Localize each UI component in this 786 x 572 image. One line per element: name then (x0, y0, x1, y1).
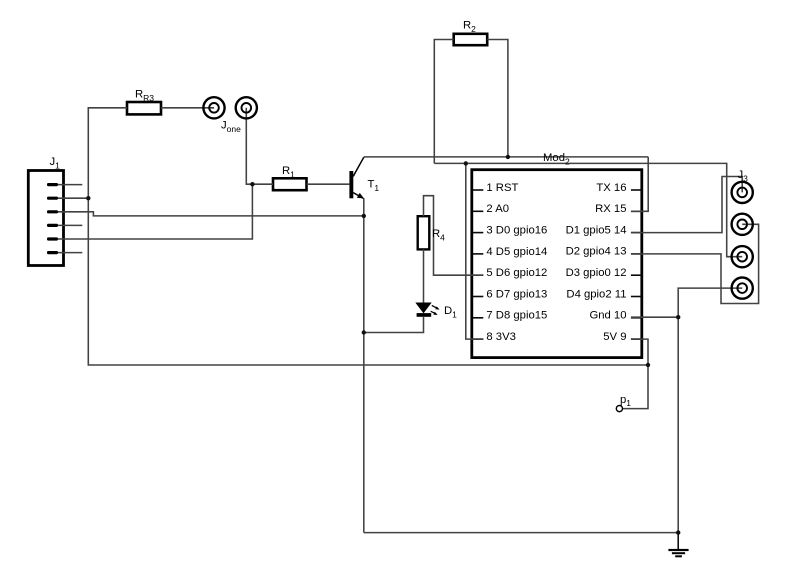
wire T1 collector rail to RX drop (364, 156, 648, 158)
connector J1 body (28, 171, 63, 266)
junction J1 pin2 / left rail (86, 196, 90, 200)
Mod2 pin 11 stub (631, 296, 642, 298)
Mod2 pin 8 3V3 stub (473, 338, 483, 340)
Mod2 pin 1 RST stub (473, 189, 483, 191)
label T1 (368, 179, 380, 194)
J1 pin 3 bar (47, 210, 58, 213)
wire 5V net to J3 jack3 (434, 163, 742, 256)
label Jone (221, 119, 241, 134)
svg-text:D4 gpio2 11: D4 gpio2 11 (566, 288, 626, 300)
IC module Mod2 body (472, 170, 642, 358)
Mod2 pin 15 RX stub (631, 210, 642, 212)
Mod2 pin 3 label (486, 225, 547, 237)
connector J3 jack1 (732, 182, 753, 203)
wire J1 pin3 to T1 emitter node (58, 212, 364, 216)
Mod2 pin 15 label (595, 203, 626, 215)
Mod2 pin 5 D6 stub (473, 274, 483, 276)
svg-text:D1 gpio5 14: D1 gpio5 14 (566, 224, 627, 236)
resistor R1 body (273, 178, 307, 190)
resistor R4 body (418, 216, 430, 249)
Mod2 pin 11 label (566, 288, 626, 300)
Mod2 pin 4 label (486, 246, 547, 258)
Mod2 pin 5 label (486, 267, 547, 279)
J1 pin 1 bar (47, 183, 58, 186)
Mod2 pin 10 label (589, 310, 626, 322)
svg-text:TX 16: TX 16 (596, 182, 626, 194)
wire R4 bottom to D1 anode (423, 249, 425, 302)
svg-text:7 D8 gpio15: 7 D8 gpio15 (486, 310, 547, 322)
wire R2 left down to 5V net (434, 40, 453, 164)
J1 pin 6 bar (47, 251, 58, 254)
svg-text:5V 9: 5V 9 (603, 331, 626, 343)
svg-text:D3 gpio0 12: D3 gpio0 12 (566, 267, 627, 279)
wire RX drop to Mod2 pin15 (631, 157, 648, 211)
label Mod2 (543, 152, 570, 166)
ground symbol (668, 533, 688, 558)
wire J1 pin4 (58, 224, 82, 226)
label R4 (432, 228, 445, 243)
Mod2 pin 13 label (566, 246, 627, 258)
label R1 (282, 165, 295, 180)
junction bottom rail / ground (676, 530, 680, 534)
jack Jone right circle (236, 97, 257, 118)
Mod2 pin 2 label (486, 203, 509, 215)
Mod2 pin 9 label (603, 331, 626, 343)
Mod2 pin 8 label (486, 331, 516, 343)
connector J3 jack4 (732, 278, 753, 299)
wire bottom node to pin P1 (623, 365, 648, 409)
wire J1 pin2 to rail junction (58, 197, 88, 199)
label J1 (50, 156, 61, 171)
resistor R2 body (454, 34, 488, 45)
Mod2 pin 6 D7 stub (473, 296, 483, 298)
wire Mod2 pin14 to J3 jack1 (631, 177, 742, 233)
wire 3V3 rail to Mod2 pin8 (466, 163, 484, 339)
Mod2 pin 13 stub (631, 253, 642, 255)
jack Jone left circle (203, 97, 224, 118)
wire bottom rail to ground (364, 532, 678, 534)
wire Mod2 pin9 5V down to bottom node (631, 339, 648, 365)
pin P1 circle (616, 406, 622, 412)
Mod2 pin 14 stub (631, 232, 642, 234)
Mod2 pin 14 label (566, 224, 627, 236)
junction 5V / bottom rail node (646, 363, 650, 367)
junction emitter line / D1 return (362, 330, 366, 334)
Mod2 pin 10 Gnd stub (631, 317, 642, 319)
svg-text:1 RST: 1 RST (486, 182, 518, 194)
LED D1 (415, 303, 439, 317)
svg-text:3 D0 gpio16: 3 D0 gpio16 (486, 225, 547, 237)
Mod2 pin 7 D8 stub (473, 317, 483, 319)
Mod2 pin 7 label (486, 310, 547, 322)
Mod2 pin 4 D5 stub (473, 253, 483, 255)
junction node A Jone/R1/pin5 (250, 182, 254, 186)
label D1 (444, 305, 457, 320)
Mod2 pin 6 label (486, 288, 547, 300)
svg-text:Gnd 10: Gnd 10 (589, 310, 626, 322)
Mod2 pin 1 label (486, 182, 518, 194)
connector J3 jack3 (732, 246, 753, 267)
resistor R_R3 body (127, 102, 161, 114)
svg-text:6 D7 gpio13: 6 D7 gpio13 (486, 288, 547, 300)
wire R_R3 left to left rail down to bottom rail (88, 108, 648, 365)
J1 pin 2 bar (47, 197, 58, 200)
label p1 (620, 394, 631, 408)
junction T1 emitter / pin3 wire (362, 214, 366, 218)
J1 pin 5 bar (47, 237, 58, 240)
wire R4 top to Mod2 pin5 (424, 196, 484, 276)
wire ground rail up to J3 jack4 (678, 288, 742, 532)
wire Mod2 pin10 Gnd to ground rail (631, 316, 678, 318)
Mod2 pin 3 D0 stub (473, 232, 483, 234)
Mod2 pin 16 TX stub (631, 189, 642, 191)
junction R2 right / collector rail (506, 155, 510, 159)
Mod2 pin 12 stub (631, 274, 642, 276)
wire Jone right jack down to node (246, 108, 252, 184)
svg-text:4 D5 gpio14: 4 D5 gpio14 (486, 246, 547, 258)
junction 3V3 rail / 5V net (464, 161, 468, 165)
wire node to R1 left (252, 183, 273, 185)
svg-text:8 3V3: 8 3V3 (486, 331, 516, 343)
wire D1 cathode to emitter line (364, 317, 424, 333)
wire J1 pin6 (58, 252, 82, 254)
wire Mod2 pin13 to J3 jack2 (631, 224, 759, 303)
label J3 (738, 169, 749, 184)
Mod2 pin 12 label (566, 267, 627, 279)
junction Gnd wire / ground rail (676, 315, 680, 319)
wire T1 emitter down to bottom rail (363, 198, 365, 532)
wire R2 right down to collector rail (487, 40, 508, 157)
wire J1 pin1 (58, 184, 82, 186)
connector J3 jack2 (732, 214, 753, 235)
label R2 (463, 20, 476, 35)
label R_R3 (135, 88, 154, 103)
Mod2 pin 9 5V stub (631, 338, 642, 340)
J1 pin 4 bar (47, 224, 58, 227)
Mod2 pin 2 A0 stub (473, 210, 483, 212)
svg-text:2 A0: 2 A0 (486, 203, 509, 215)
Mod2 pin 16 label (596, 182, 626, 194)
svg-text:RX 15: RX 15 (595, 203, 626, 215)
wire J1 pin5 up to node A (58, 184, 252, 239)
wire R_R3 right to Jone left jack (161, 107, 214, 109)
transistor T1 (349, 157, 364, 198)
wire R1 right to T1 base (307, 183, 350, 185)
svg-text:5 D6 gpio12: 5 D6 gpio12 (486, 267, 547, 279)
svg-text:D2 gpio4 13: D2 gpio4 13 (566, 246, 627, 258)
